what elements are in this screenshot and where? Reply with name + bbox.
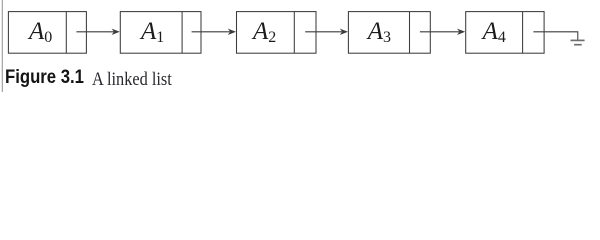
page margin rule	[1, 0, 3, 92]
wire: pointer 3	[305, 31, 342, 33]
wire: nil pointer to ground	[533, 32, 577, 40]
svg-text:A3: A3	[366, 18, 391, 46]
wire: pointer 2	[192, 31, 231, 33]
node box 2	[120, 12, 201, 54]
node box 4	[348, 12, 430, 54]
node box 3	[237, 12, 317, 54]
arrowhead 1	[112, 29, 120, 35]
svg-text:A4: A4	[481, 18, 506, 46]
arrowhead 4	[457, 29, 465, 35]
svg-text:A2: A2	[251, 18, 276, 46]
node box 1	[8, 12, 86, 54]
arrowhead 3	[340, 29, 348, 35]
svg-text:A1: A1	[139, 18, 164, 46]
wire: pointer 1	[76, 31, 114, 33]
node box 5	[466, 12, 544, 54]
caption	[0, 0, 600, 92]
wire: pointer 4	[420, 31, 460, 33]
ground (nil) symbol	[571, 40, 585, 44]
arrowhead 2	[228, 29, 236, 35]
svg-text:A0: A0	[27, 18, 52, 46]
